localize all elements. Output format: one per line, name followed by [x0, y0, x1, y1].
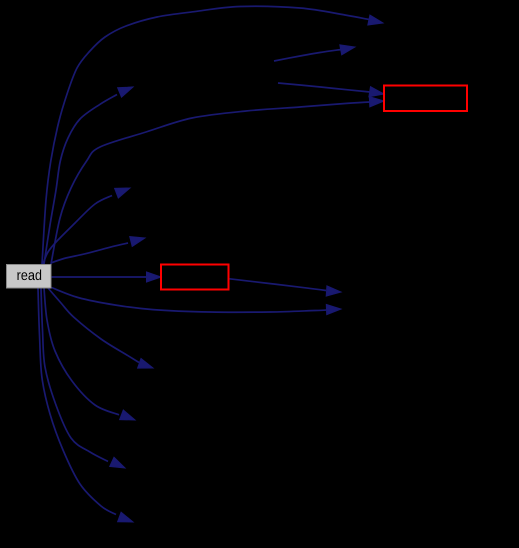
arrowhead E11: [120, 410, 135, 420]
arrowhead E12: [110, 457, 125, 468]
wire edge E7: [52, 276, 147, 278]
arrowhead E1: [368, 15, 383, 25]
wire edge E3a: [278, 83, 370, 92]
wire edge E8: [230, 279, 327, 291]
arrowhead E3a: [369, 87, 384, 97]
arrowhead E2: [340, 45, 355, 55]
wire edge E12: [41, 288, 108, 462]
wire edge E13: [38, 288, 116, 515]
arrowhead E3b: [369, 97, 384, 107]
node highlighted red box 1: [384, 86, 467, 112]
wire edge E2: [274, 50, 341, 62]
arrowhead E10: [138, 359, 153, 369]
wire edge E4: [44, 95, 117, 265]
wire edge E5: [43, 196, 112, 265]
arrowhead E5: [115, 188, 130, 198]
node read (current function): [7, 265, 52, 289]
node highlighted red box 2: [161, 265, 229, 290]
arrowhead E13: [118, 512, 133, 522]
wire edge E11: [44, 288, 119, 415]
arrowhead E9: [326, 304, 341, 314]
wire edge E6: [51, 243, 128, 263]
wire edge E10: [48, 288, 139, 363]
arrowhead E6: [130, 237, 145, 247]
wire edge E3b: [51, 102, 370, 264]
arrowhead E4: [118, 87, 133, 97]
arrowhead E8: [326, 286, 341, 296]
wire edge E9: [52, 288, 328, 313]
arrowhead E7: [147, 272, 162, 282]
wire edge E1: [42, 6, 369, 264]
